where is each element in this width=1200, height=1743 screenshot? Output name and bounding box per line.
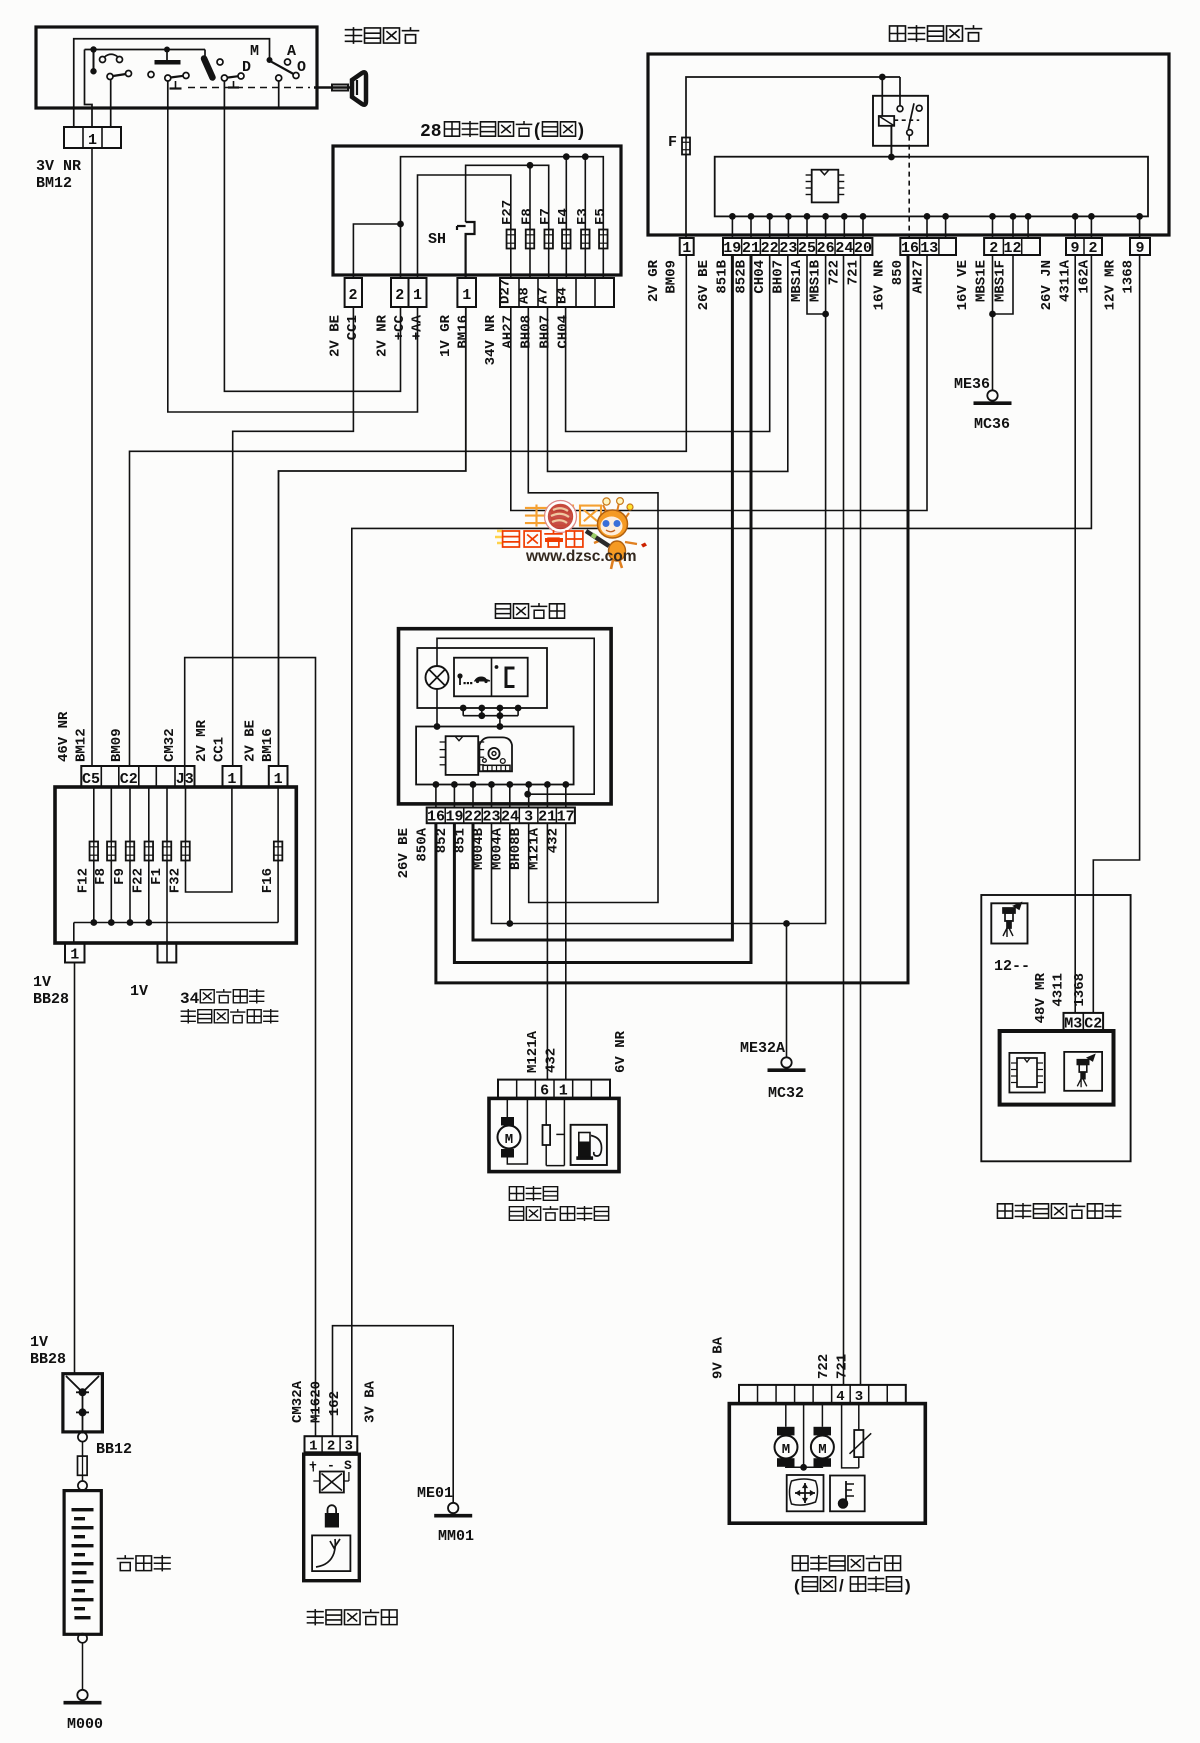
svg-text:S: S — [344, 1458, 352, 1473]
svg-text:28: 28 — [420, 122, 442, 142]
svg-text:4311: 4311 — [1050, 973, 1066, 1007]
svg-text:9: 9 — [1135, 240, 1144, 257]
svg-text:www.dzsc.com: www.dzsc.com — [525, 548, 637, 565]
svg-text:D27: D27 — [497, 279, 513, 304]
svg-text:MC32: MC32 — [768, 1085, 804, 1102]
svg-text:16V NR: 16V NR — [871, 259, 887, 310]
svg-text:48V MR: 48V MR — [1033, 972, 1049, 1023]
svg-text:850A: 850A — [414, 827, 430, 861]
svg-text:9: 9 — [1070, 240, 1079, 257]
svg-text:12--: 12-- — [994, 958, 1030, 975]
svg-text:16: 16 — [427, 809, 445, 826]
svg-text:M121A: M121A — [525, 1030, 541, 1073]
svg-text:BM09: BM09 — [109, 728, 125, 762]
svg-text:MBS1A: MBS1A — [789, 259, 805, 302]
svg-text:F32: F32 — [167, 868, 183, 893]
svg-text:46V NR: 46V NR — [56, 711, 72, 762]
svg-text:26V JN: 26V JN — [1039, 260, 1055, 310]
svg-text:162A: 162A — [1076, 259, 1092, 293]
svg-text:BB28: BB28 — [30, 1351, 66, 1368]
svg-text:/: / — [839, 1576, 844, 1595]
svg-text:1V: 1V — [130, 983, 148, 1000]
svg-text:851: 851 — [452, 828, 468, 853]
svg-text:9V BA: 9V BA — [710, 1336, 726, 1379]
svg-text:3V NR: 3V NR — [36, 158, 81, 175]
svg-text:M: M — [818, 1442, 826, 1458]
svg-text:M: M — [782, 1442, 790, 1458]
svg-text:BM16: BM16 — [260, 728, 276, 762]
svg-text:13: 13 — [920, 240, 938, 257]
svg-text:F1: F1 — [149, 868, 165, 885]
svg-text:CH04: CH04 — [752, 260, 768, 294]
svg-text:852B: 852B — [733, 259, 749, 293]
svg-text:(: ( — [794, 1576, 800, 1595]
svg-text:16V VE: 16V VE — [955, 260, 971, 310]
svg-text:3V BA: 3V BA — [362, 1380, 378, 1423]
svg-text:CH04: CH04 — [555, 315, 571, 349]
svg-text:F12: F12 — [76, 868, 92, 893]
svg-text:432: 432 — [545, 828, 561, 853]
svg-text:1: 1 — [413, 287, 422, 304]
svg-text:2V BE: 2V BE — [242, 720, 258, 762]
svg-text:24: 24 — [835, 240, 853, 257]
svg-text:6: 6 — [540, 1083, 549, 1100]
svg-text:ME36: ME36 — [954, 376, 990, 393]
svg-text:C5: C5 — [82, 771, 100, 788]
svg-text:2: 2 — [1088, 240, 1097, 257]
svg-text:22: 22 — [761, 240, 779, 257]
svg-text:20: 20 — [854, 240, 872, 257]
svg-text:21: 21 — [538, 809, 556, 826]
svg-text:F3: F3 — [575, 208, 591, 225]
svg-text:1: 1 — [559, 1083, 568, 1100]
svg-text:M: M — [250, 43, 259, 60]
svg-text:722: 722 — [816, 1354, 832, 1379]
svg-text:O: O — [297, 59, 306, 76]
svg-text:BH07: BH07 — [770, 260, 786, 294]
svg-text:M121A: M121A — [526, 827, 542, 870]
svg-text:M1620: M1620 — [308, 1381, 324, 1423]
svg-text:CM32A: CM32A — [290, 1380, 306, 1423]
svg-text:26V BE: 26V BE — [396, 828, 412, 878]
svg-text:2: 2 — [327, 1439, 335, 1455]
svg-text:ME01: ME01 — [417, 1485, 453, 1502]
svg-text:850: 850 — [890, 260, 906, 285]
svg-text:C2: C2 — [120, 771, 138, 788]
svg-text:M004A: M004A — [489, 827, 505, 870]
svg-text:3: 3 — [344, 1439, 352, 1455]
svg-text:721: 721 — [835, 1354, 851, 1379]
svg-text:M000: M000 — [67, 1716, 103, 1733]
svg-text:MBS1F: MBS1F — [992, 260, 1008, 302]
svg-text:M: M — [505, 1132, 513, 1148]
svg-text:722: 722 — [826, 260, 842, 285]
svg-text:3: 3 — [524, 809, 533, 826]
svg-text:34V NR: 34V NR — [483, 314, 499, 365]
svg-text:12: 12 — [1003, 240, 1021, 257]
svg-text:MM01: MM01 — [438, 1528, 474, 1545]
svg-text:1: 1 — [682, 240, 691, 257]
svg-text:CM32: CM32 — [162, 728, 178, 762]
svg-text:AH27: AH27 — [910, 260, 926, 294]
svg-text:M004B: M004B — [471, 827, 487, 870]
svg-text:1: 1 — [70, 947, 79, 964]
svg-text:2V MR: 2V MR — [194, 719, 210, 762]
svg-text:162: 162 — [327, 1391, 343, 1416]
svg-text:23: 23 — [483, 809, 501, 826]
svg-text:12V MR: 12V MR — [1102, 259, 1118, 310]
svg-text:BH07: BH07 — [537, 315, 553, 349]
svg-text:851B: 851B — [714, 259, 730, 293]
svg-text:MBS1E: MBS1E — [973, 260, 989, 302]
svg-text:1: 1 — [462, 287, 471, 304]
svg-text:721: 721 — [845, 260, 861, 285]
svg-text:23: 23 — [779, 240, 797, 257]
svg-text:MC36: MC36 — [974, 416, 1010, 433]
svg-text:BM09: BM09 — [663, 260, 679, 294]
svg-text:2V GR: 2V GR — [646, 259, 662, 302]
svg-text:1V: 1V — [33, 974, 51, 991]
svg-text:1V GR: 1V GR — [438, 314, 454, 357]
svg-text:2: 2 — [348, 287, 357, 304]
svg-text:J3: J3 — [176, 771, 194, 788]
svg-text:1: 1 — [227, 771, 236, 788]
svg-text:BH08B: BH08B — [508, 827, 524, 870]
svg-text:1: 1 — [88, 132, 97, 149]
svg-text:F16: F16 — [260, 868, 276, 893]
svg-text:BB12: BB12 — [96, 1441, 132, 1458]
svg-text:2: 2 — [395, 287, 404, 304]
svg-text:MBS1B: MBS1B — [807, 259, 823, 302]
svg-text:F7: F7 — [538, 208, 554, 225]
svg-text:A: A — [287, 43, 296, 60]
svg-text:1368: 1368 — [1120, 260, 1136, 294]
svg-text:ME32A: ME32A — [740, 1040, 785, 1057]
svg-text:B4: B4 — [554, 287, 570, 304]
svg-text:D: D — [242, 59, 251, 76]
svg-text:19: 19 — [445, 809, 463, 826]
svg-text:BH08: BH08 — [518, 315, 534, 349]
svg-text:22: 22 — [464, 809, 482, 826]
svg-text:F22: F22 — [131, 868, 147, 893]
svg-text:2V NR: 2V NR — [374, 314, 390, 357]
svg-text:4311A: 4311A — [1057, 259, 1073, 302]
svg-text:2V BE: 2V BE — [327, 315, 343, 357]
svg-text:F: F — [668, 134, 677, 151]
svg-text:1368: 1368 — [1072, 973, 1088, 1007]
svg-text:24: 24 — [501, 809, 519, 826]
svg-text:SH: SH — [428, 231, 446, 248]
svg-text:CC1: CC1 — [211, 737, 227, 762]
svg-text:F5: F5 — [593, 208, 609, 225]
svg-text:): ) — [578, 120, 584, 140]
svg-text:432: 432 — [543, 1048, 559, 1073]
svg-text:34: 34 — [180, 990, 200, 1008]
svg-text:19: 19 — [723, 240, 741, 257]
svg-text:F8: F8 — [519, 208, 535, 225]
svg-text:F4: F4 — [556, 208, 572, 225]
svg-text:BM16: BM16 — [455, 315, 471, 349]
svg-text:1: 1 — [309, 1439, 317, 1455]
svg-text:): ) — [905, 1576, 911, 1595]
svg-text:BM12: BM12 — [73, 728, 89, 762]
svg-text:21: 21 — [742, 240, 760, 257]
svg-text:6V NR: 6V NR — [613, 1030, 629, 1073]
svg-text:F9: F9 — [112, 868, 128, 885]
svg-text:26: 26 — [817, 240, 835, 257]
svg-text:1V: 1V — [30, 1334, 48, 1351]
svg-text:A8: A8 — [516, 287, 532, 304]
svg-text:1: 1 — [274, 771, 283, 788]
svg-text:A7: A7 — [535, 287, 551, 304]
svg-text:26V BE: 26V BE — [696, 260, 712, 310]
svg-text:2: 2 — [989, 240, 998, 257]
svg-text:16: 16 — [901, 240, 919, 257]
svg-text:(: ( — [534, 120, 540, 140]
svg-text:852: 852 — [434, 828, 450, 853]
svg-text:AH27: AH27 — [500, 315, 516, 349]
svg-text:BB28: BB28 — [33, 991, 69, 1008]
svg-text:BM12: BM12 — [36, 175, 72, 192]
svg-text:17: 17 — [557, 809, 575, 826]
svg-text:F8: F8 — [93, 868, 109, 885]
svg-text:25: 25 — [798, 240, 816, 257]
svg-text:F27: F27 — [500, 200, 516, 225]
